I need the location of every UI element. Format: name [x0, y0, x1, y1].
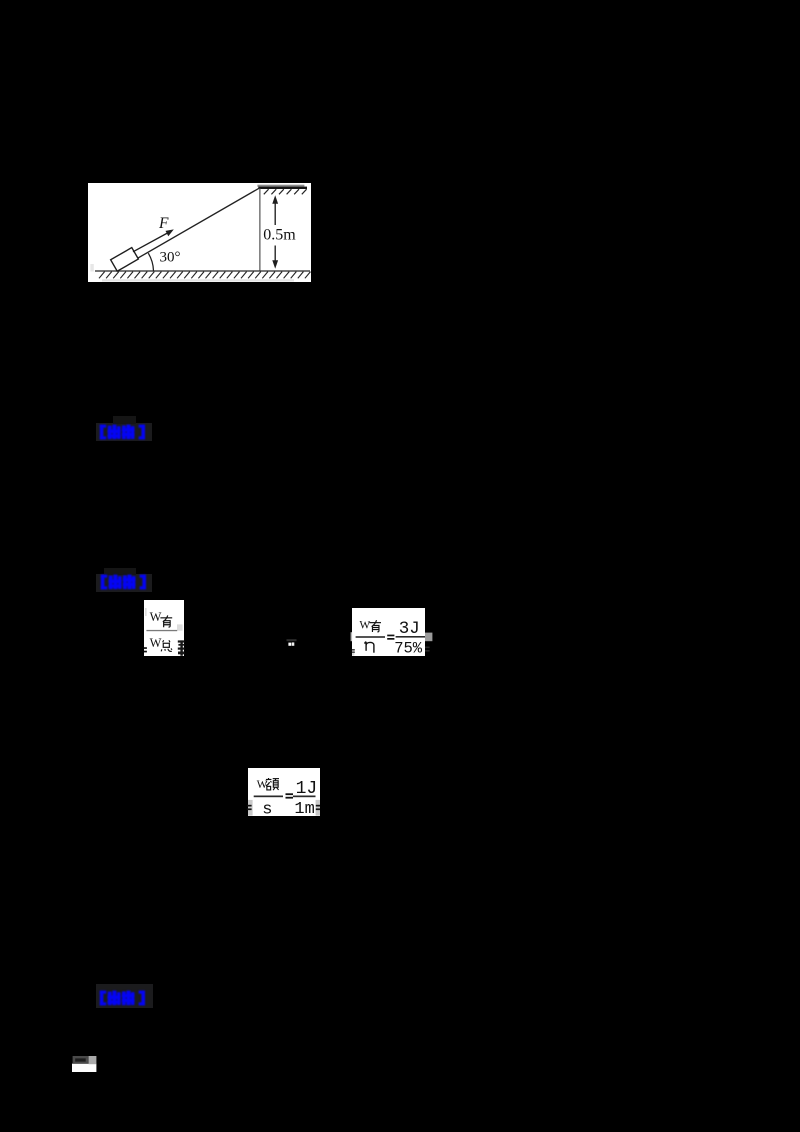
blue heading 3 (blurred bracketed CJK label): [99, 990, 148, 1007]
dark halo behind blue heading 3: [96, 984, 153, 1008]
svg-text:30°: 30°: [159, 249, 180, 265]
incline board: [137, 187, 259, 257]
svg-text:F: F: [158, 215, 169, 232]
svg-text:W: W: [149, 636, 161, 650]
vertical wall line: [258, 187, 260, 270]
dark halo behind blue heading 2: [96, 574, 152, 592]
ground line: [95, 270, 310, 272]
blue heading 1 (blurred bracketed CJK label): [99, 424, 148, 441]
ledge grey top strip: [257, 184, 304, 186]
faint grey smudge at left end of ground line: [90, 264, 93, 272]
physics diagram: block pushed up a 30-deg ramp onto 0.5m ledge: [88, 183, 311, 282]
dark halo behind blue heading 1: [96, 423, 152, 441]
svg-text:s: s: [262, 800, 272, 819]
svg-text:W: W: [257, 778, 268, 790]
formula image 2: W_you / eta = 3J / 75%: [352, 608, 425, 656]
partial equals at left edge: [144, 647, 147, 649]
ledge hatching: [263, 189, 306, 194]
dark partial glyph at right edge: [178, 640, 185, 655]
ledge black bar: [258, 186, 307, 188]
svg-text:W: W: [149, 610, 161, 624]
0.5m measure arrow upper: [274, 200, 276, 225]
grey smear under ground hatching: [102, 279, 294, 281]
30 degree arc: [148, 253, 153, 271]
svg-text:1m: 1m: [294, 800, 314, 819]
block on ground: [110, 247, 138, 271]
bottom-left clipped formula image fragment: [72, 1056, 96, 1072]
force arrow F: [133, 231, 170, 251]
formula image 1: fraction W_you over W_zong: [144, 600, 184, 656]
0.5m measure arrow lower: [274, 245, 276, 264]
ground hatching: [99, 271, 311, 278]
formula image 3: W_e / s = 1J / 1m: [248, 768, 320, 816]
tiny white speck pair (compression remnant): [286, 639, 297, 647]
blue heading 2 (blurred bracketed CJK label): [100, 574, 149, 591]
svg-text:W: W: [359, 620, 370, 632]
svg-text:75%: 75%: [394, 639, 423, 657]
svg-text:0.5m: 0.5m: [263, 226, 296, 243]
